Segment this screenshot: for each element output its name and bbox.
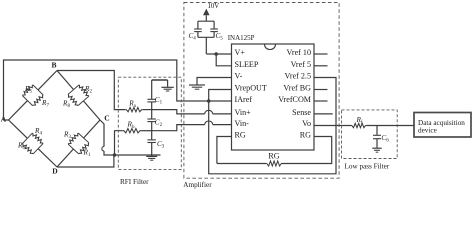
svg-text:RG: RG	[300, 131, 311, 140]
svg-text:Vref 10: Vref 10	[287, 48, 311, 57]
svg-text:10V: 10V	[208, 3, 220, 10]
svg-text:Vref 5: Vref 5	[291, 60, 311, 69]
svg-text:Vref 2.5: Vref 2.5	[285, 72, 311, 81]
svg-text:B: B	[52, 61, 57, 70]
svg-text:Vo: Vo	[302, 119, 311, 128]
svg-text:RG: RG	[235, 131, 246, 140]
svg-text:Sense: Sense	[292, 108, 311, 117]
svg-text:Amplifier: Amplifier	[183, 181, 212, 189]
svg-text:VrefCOM: VrefCOM	[278, 95, 311, 104]
svg-text:VrepOUT: VrepOUT	[235, 84, 267, 93]
svg-text:Vref BG: Vref BG	[283, 84, 311, 93]
svg-text:INA125P: INA125P	[228, 34, 255, 42]
svg-text:V-: V-	[235, 72, 243, 81]
svg-text:RFI Filter: RFI Filter	[120, 178, 149, 186]
svg-text:Low pass Filter: Low pass Filter	[345, 162, 390, 170]
svg-text:C: C	[104, 114, 109, 123]
svg-text:device: device	[418, 127, 437, 135]
svg-text:SLEEP: SLEEP	[235, 60, 259, 69]
svg-text:RG: RG	[268, 152, 279, 161]
svg-text:V+: V+	[235, 48, 246, 57]
svg-text:Vin+: Vin+	[235, 108, 252, 117]
svg-text:IAref: IAref	[235, 95, 253, 104]
svg-text:Vin-: Vin-	[235, 119, 250, 128]
svg-text:D: D	[52, 167, 58, 176]
svg-text:Data acquisition: Data acquisition	[418, 119, 465, 127]
